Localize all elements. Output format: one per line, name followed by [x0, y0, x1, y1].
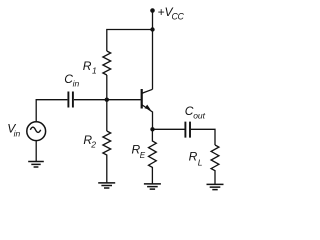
svg-text:out: out: [193, 111, 205, 121]
node +VCC terminal dot: [150, 8, 155, 13]
resistor R1: [103, 51, 111, 75]
ground R2: [98, 183, 115, 188]
source Vin sine: [30, 127, 40, 132]
resistor RL: [211, 145, 219, 184]
wire VCC to R1 top: [107, 30, 153, 52]
ground Vin: [28, 162, 44, 168]
ground RL: [207, 184, 224, 189]
svg-text:CC: CC: [172, 11, 185, 21]
wire input corner to Cin left plate: [36, 100, 67, 121]
svg-text:E: E: [140, 151, 146, 160]
wire VCC vertical (dot to collector corner): [152, 11, 154, 90]
transistor Q1 emitter lead: [142, 105, 153, 130]
source Vin circle: [27, 122, 46, 141]
svg-text:R: R: [189, 150, 198, 164]
junction emitter node: [150, 127, 154, 131]
svg-text:L: L: [198, 157, 203, 167]
wire R1 bottom to base node: [106, 75, 108, 100]
junction base node: [105, 98, 109, 102]
wire Cin right plate to base: [74, 99, 141, 101]
svg-text:R: R: [83, 59, 92, 73]
wire Vin bottom stem: [35, 141, 37, 162]
junction VCC / R1 branch: [150, 27, 154, 31]
wire Cout right plate to RL top: [191, 129, 215, 145]
capacitor Cout: [185, 122, 190, 138]
resistor RE: [148, 129, 156, 183]
svg-text:1: 1: [92, 65, 97, 75]
transistor Q1 emitter arrow: [145, 105, 151, 110]
capacitor Cin: [68, 92, 73, 108]
wire emitter node to Cout left plate: [153, 128, 185, 130]
wire R2 top lead: [106, 100, 108, 131]
svg-text:in: in: [14, 129, 21, 139]
svg-text:in: in: [73, 79, 80, 89]
ground RE: [144, 184, 161, 189]
transistor Q1 base bar: [141, 89, 143, 109]
resistor R2: [103, 131, 111, 183]
transistor Q1 collector lead: [142, 89, 153, 93]
svg-text:2: 2: [90, 139, 96, 149]
